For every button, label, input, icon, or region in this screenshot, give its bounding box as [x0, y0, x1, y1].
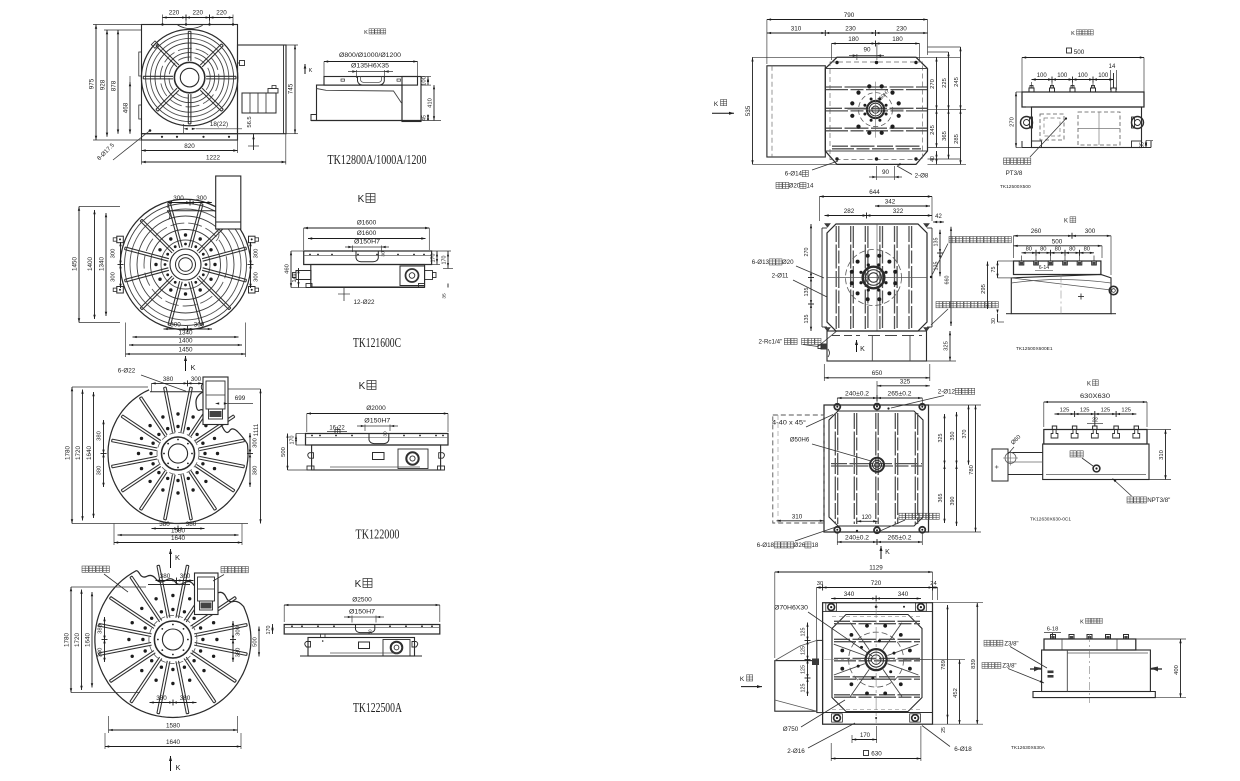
view TK12630X630A front: inner octagon table — [832, 615, 922, 712]
svg-text:40: 40 — [930, 156, 936, 162]
dimension 310/230/230 view5 — [767, 32, 928, 34]
label worm gearbox oil holes lower — [936, 302, 942, 308]
svg-text:K: K — [1087, 382, 1091, 388]
view TK121600C front: hub — [170, 249, 201, 280]
svg-text:6-Ø14: 6-Ø14 — [785, 171, 803, 178]
svg-text:125: 125 — [801, 646, 807, 655]
view TK12500X600 side: right boss circle — [1109, 286, 1117, 294]
svg-text:265±0.2: 265±0.2 — [888, 391, 913, 398]
svg-text:4-40 x 45°: 4-40 x 45° — [772, 420, 807, 427]
svg-text:6-Ø18: 6-Ø18 — [757, 542, 775, 549]
view TK122500A front: bolt dots rings — [201, 638, 204, 641]
view TK12630X630 side: body — [1043, 444, 1149, 480]
dimension 220/220/220 top — [162, 15, 164, 25]
view TK12800A front: bottom flange strip — [142, 134, 238, 140]
svg-text:90: 90 — [863, 47, 871, 54]
label hanging die view7side — [1070, 451, 1076, 457]
svg-text:1720: 1720 — [74, 633, 81, 648]
svg-text:18: 18 — [811, 542, 818, 549]
dimension 1640 left view4 — [91, 592, 93, 688]
svg-text:265±0.2: 265±0.2 — [888, 535, 913, 542]
svg-text:630: 630 — [871, 751, 882, 758]
svg-text:125: 125 — [801, 665, 807, 674]
svg-text:630X630: 630X630 — [1080, 393, 1111, 400]
svg-text:380: 380 — [156, 695, 167, 702]
view TK122500A side: center recess cup — [356, 625, 375, 633]
svg-text:230: 230 — [896, 26, 907, 33]
svg-text:380: 380 — [180, 695, 191, 702]
svg-text:Ø150H7: Ø150H7 — [354, 240, 381, 246]
svg-text:6-18: 6-18 — [1047, 627, 1059, 633]
svg-text:365: 365 — [938, 494, 944, 503]
svg-text:380: 380 — [163, 376, 174, 383]
dimension 300/300 inner-left view2 — [120, 242, 122, 288]
dimension 1222 bottom view1 — [142, 161, 286, 163]
label lock port PT3/8 — [1004, 158, 1010, 164]
svg-text:310: 310 — [792, 513, 803, 520]
dimension 365/390 lower right view7 — [944, 465, 946, 523]
svg-text:K: K — [175, 763, 180, 772]
dimension 170 right2 view2side — [447, 251, 449, 269]
svg-text:240±0.2: 240±0.2 — [845, 391, 870, 398]
view TK12800A front: motor unit — [242, 93, 276, 113]
svg-text:322: 322 — [893, 208, 904, 215]
dimension 245 right view5 — [960, 47, 962, 110]
dimension 300/380 inner-right view3 — [249, 433, 251, 487]
svg-text:K: K — [1064, 219, 1068, 225]
dimension 340/340 view8 — [831, 598, 921, 600]
view TK12630X630A side: side pins — [1034, 667, 1042, 672]
dimension 342 view6 — [875, 205, 930, 207]
dimension 100x4 view5side — [1032, 79, 1114, 81]
svg-text:170: 170 — [442, 256, 448, 265]
svg-text:6-14: 6-14 — [1039, 265, 1049, 271]
view TK12630X630A side: body — [1042, 650, 1151, 692]
dimension 310 right view7side — [1165, 430, 1167, 480]
view TK121600C front: 12 radial slots — [202, 270, 246, 282]
view TK12500X500 side: left round boss — [1021, 117, 1033, 129]
svg-text:TK122000: TK122000 — [356, 527, 400, 542]
view TK122000 side: feet — [307, 466, 314, 470]
svg-text:380: 380 — [159, 521, 170, 528]
view direction K marker right of view1 — [304, 64, 306, 74]
svg-text:125: 125 — [801, 684, 807, 693]
view TK121600C front: bolt circle dots — [213, 263, 216, 266]
view TK122500A front: top chord line — [148, 584, 190, 586]
svg-text:125: 125 — [1121, 408, 1131, 414]
svg-text:125: 125 — [801, 628, 807, 637]
svg-text:310: 310 — [791, 26, 802, 33]
view TK12630X630A side: clamp fittings left — [1048, 671, 1054, 674]
label worm gearbox oil holes upper — [949, 237, 955, 243]
view TK12800A front: corner clamp tab — [151, 41, 158, 48]
view TK12500X500 front: main body octagon — [825, 57, 927, 164]
view TK12630X630A side: top plate — [1044, 639, 1136, 650]
dimension 789 right view8 — [947, 605, 949, 719]
view direction K arrow between view3 and view4 — [170, 549, 172, 568]
svg-text:K: K — [175, 553, 180, 562]
view TK12630X630 front: vertical T-slot bands — [834, 413, 836, 524]
svg-text:270: 270 — [930, 79, 936, 89]
dimension 1400 bottom view2 — [129, 344, 242, 346]
svg-text:220: 220 — [216, 10, 227, 17]
view TK12630X630A side: studs — [1051, 635, 1056, 640]
dimension 1450 left view2 — [78, 207, 80, 323]
dimension 1340 bottom view2 — [133, 336, 239, 338]
dimension 975 left — [93, 24, 142, 26]
view TK12800A side: main body with wedge — [317, 85, 403, 120]
svg-text:270: 270 — [804, 248, 810, 257]
svg-text:285: 285 — [954, 134, 960, 144]
svg-text:342: 342 — [885, 199, 896, 206]
svg-text:745: 745 — [288, 83, 295, 94]
svg-text:180: 180 — [892, 36, 903, 43]
dimension 1400 left view2 — [94, 210, 96, 319]
dimension 325/350/370 right view7 — [944, 414, 946, 465]
view TK12500X600 front: clamp fitting left — [821, 344, 828, 350]
view TK12630X630 front: outer square — [824, 405, 929, 532]
svg-text:1640: 1640 — [166, 739, 181, 746]
dimension 1780 left view3 — [71, 387, 73, 524]
dimension 380/380 inner-left view3 — [103, 420, 105, 487]
svg-text:120: 120 — [861, 515, 872, 521]
svg-text:1129: 1129 — [869, 565, 883, 572]
svg-text:300: 300 — [180, 573, 191, 580]
svg-text:45: 45 — [422, 115, 428, 121]
view direction K arrow view7 — [880, 546, 882, 559]
svg-text:245: 245 — [954, 77, 960, 87]
view TK121600C side: left shaft boss — [296, 271, 311, 280]
svg-text:380: 380 — [186, 521, 197, 528]
svg-text:699: 699 — [235, 395, 246, 402]
svg-text:80: 80 — [1069, 247, 1075, 253]
dimension 380/380 bottom view4 — [150, 702, 197, 704]
dimension 245 lower right view5 — [936, 110, 938, 148]
svg-text:500: 500 — [253, 637, 259, 647]
dimension 149 left view2side — [298, 268, 300, 288]
svg-text:660: 660 — [945, 276, 951, 285]
svg-text:1640: 1640 — [85, 633, 92, 648]
dimension 325 bottom right view6 — [949, 331, 951, 361]
view TK122000 side: center handle — [373, 453, 385, 460]
svg-text:282: 282 — [844, 208, 855, 215]
svg-text:300: 300 — [254, 249, 260, 259]
svg-text:K: K — [1071, 31, 1075, 37]
dimension 380/380 bottom view3 — [152, 528, 205, 530]
svg-text:1580: 1580 — [166, 723, 181, 730]
dimension 1580 bottom view4 — [109, 729, 238, 731]
svg-text:6-Ø18: 6-Ø18 — [954, 746, 972, 753]
svg-text:300: 300 — [236, 626, 242, 636]
svg-text:135: 135 — [804, 315, 810, 324]
view TK12500X600 side: top plate with studs — [1014, 261, 1101, 275]
svg-text:380: 380 — [98, 648, 104, 658]
view TK121600C side: feet — [306, 284, 312, 288]
view TK122500A front: 16 radial slots — [194, 645, 247, 655]
view TK12630X630A front: left box — [775, 661, 817, 712]
svg-text:K: K — [860, 346, 865, 353]
view TK122000 side: motor circle — [406, 452, 418, 464]
dimension 240/265 top view7 — [837, 397, 922, 399]
view TK12500X600 front: corner clamp tabs — [824, 223, 831, 227]
view TK122000 front: motor box — [203, 377, 228, 425]
svg-text:300: 300 — [111, 249, 117, 259]
view TK12500X500 front: corner bolt dots — [835, 61, 838, 64]
svg-text:Ø750: Ø750 — [783, 726, 799, 733]
svg-text:K: K — [355, 579, 362, 590]
dimension 1640 left view3 — [93, 392, 95, 518]
svg-text:225: 225 — [942, 78, 948, 88]
view TK12500X500 side: top plate — [1022, 92, 1144, 107]
svg-text:1780: 1780 — [64, 633, 71, 648]
dimension 468 left — [129, 82, 131, 134]
leader clamp port to body view8side — [1010, 647, 1047, 669]
svg-text:35: 35 — [1140, 142, 1146, 148]
svg-text:325: 325 — [900, 379, 911, 386]
svg-text:Ø150H7: Ø150H7 — [349, 610, 376, 616]
dimension 90 view5 top — [856, 54, 858, 60]
view TK12500X500 side: body block — [1032, 107, 1142, 148]
view TK12630X630 side: crosshair circle — [1005, 453, 1016, 464]
dimension 878 left — [117, 30, 119, 134]
label worm oil port view7 — [899, 513, 905, 519]
view direction K arrow bottom view2 — [185, 356, 187, 371]
svg-text:135: 135 — [934, 238, 940, 247]
dimension 1780 left view4 — [70, 587, 72, 693]
dimension 410 right side view1 — [421, 120, 441, 122]
svg-text:170: 170 — [431, 254, 437, 263]
leader release port to body view8side — [1008, 669, 1044, 684]
view TK121600C front: outer rim circle — [120, 199, 250, 329]
svg-text:1450: 1450 — [178, 347, 193, 354]
svg-text:460: 460 — [285, 264, 291, 274]
view TK122500A front: hub circles — [154, 621, 191, 658]
view TK12800A side: table top plate — [324, 77, 418, 86]
view TK121600C side: center recess cup — [356, 251, 378, 262]
label drain NPT3/8 view7side — [1127, 497, 1133, 503]
svg-text:300: 300 — [191, 376, 202, 383]
view TK122500A front: disc outline with torn cut — [95, 571, 251, 718]
dimension 1640 bottom view3 — [114, 542, 242, 544]
dimension 225 right view5 — [948, 52, 950, 110]
dimension 35 right view2side — [447, 284, 449, 288]
view TK12500X600 front: side strips — [821, 228, 823, 327]
svg-text:TK121600C: TK121600C — [353, 335, 401, 350]
svg-text:Ø50H6: Ø50H6 — [790, 437, 810, 444]
view TK12630X630A side: base flange — [1033, 692, 1155, 698]
svg-text:100: 100 — [1037, 73, 1048, 79]
view TK12630X630A front: top rail bolts — [828, 604, 835, 611]
svg-text:790: 790 — [844, 12, 855, 19]
view TK12630X630 front: left dashed plate — [773, 415, 824, 523]
svg-text:1340: 1340 — [99, 257, 106, 272]
dimension 270 view5side — [1015, 92, 1017, 148]
dimension 180/180 view5 — [832, 43, 920, 45]
svg-text:1720: 1720 — [75, 446, 82, 461]
svg-text:14: 14 — [807, 183, 814, 190]
svg-text:300: 300 — [170, 322, 181, 329]
svg-text:6-Ø22: 6-Ø22 — [118, 368, 136, 375]
view TK121600C side: right gearbox — [400, 266, 425, 286]
view direction K arrow view6 — [856, 340, 858, 352]
svg-text:878: 878 — [111, 80, 118, 91]
dimension 380/300 top view3 — [152, 382, 203, 384]
view TK121600C front: concentric rings — [125, 204, 247, 326]
view TK12630X630 side: oil plug circle — [1093, 465, 1100, 472]
svg-text:220: 220 — [193, 10, 204, 17]
svg-text:K: K — [309, 68, 313, 74]
svg-text:380: 380 — [253, 466, 259, 476]
dimension 135/135/660 right view6 — [939, 230, 941, 276]
view TK121600C front: top chord cut — [167, 210, 216, 212]
view TK121600C front: top right housing rect — [216, 176, 241, 229]
dimension 780 right view7 — [975, 405, 977, 532]
svg-text:300: 300 — [173, 195, 184, 202]
view TK12500X500 front: left auxiliary block — [767, 66, 825, 157]
svg-text:30: 30 — [368, 629, 373, 635]
svg-text:500: 500 — [1074, 49, 1085, 56]
view TK12500X500 front: center bolt circle cluster — [897, 114, 901, 118]
svg-text:780: 780 — [969, 465, 975, 475]
svg-text:1780: 1780 — [65, 446, 72, 461]
svg-text:K: K — [358, 194, 365, 205]
view TK12500X500 front: inner dashed outline — [830, 62, 923, 160]
svg-text:100: 100 — [422, 76, 428, 86]
view TK122000 front: 16 radial slots — [199, 459, 244, 468]
dimension 40 view5 — [936, 151, 938, 164]
svg-text:380: 380 — [160, 573, 171, 580]
svg-text:42: 42 — [935, 214, 942, 220]
svg-text:2-Ø11: 2-Ø11 — [772, 273, 789, 280]
view TK12500X500 side: right round boss — [1132, 117, 1144, 129]
svg-text:+: + — [994, 465, 1001, 469]
view TK12500X600 side: plus mark — [1078, 296, 1084, 298]
label oil-pipe port view4 — [82, 566, 88, 572]
dimension 300/380 inner-right view4 — [232, 621, 234, 662]
view TK12630X630A front: bolt dots — [908, 667, 912, 671]
svg-text:400: 400 — [1174, 665, 1180, 675]
dimension 30 view6side — [997, 314, 999, 322]
view TK12630X630A front: bottom rail bolts — [834, 715, 841, 722]
dimension 35 view5side — [1145, 141, 1147, 148]
view TK12630X630A side: center dashed axis — [1089, 634, 1091, 703]
view TK122000 side: lifting hooks — [308, 453, 314, 459]
dimension 500 right view4 — [258, 627, 260, 657]
dimension 820 bottom view1 — [142, 150, 238, 152]
svg-text:NPT3/8": NPT3/8" — [1147, 497, 1170, 504]
label release port Z3/8 view8 — [982, 663, 988, 669]
svg-text:TK12630X630-0C1: TK12630X630-0C1 — [1030, 517, 1071, 523]
dimension 100 right side view1 — [418, 76, 432, 78]
extension line center view7 — [876, 389, 878, 402]
svg-text:Ø2000: Ø2000 — [366, 405, 386, 412]
dimension 535 left view5 — [752, 57, 754, 164]
svg-text:Ø2500: Ø2500 — [352, 597, 372, 604]
svg-text:75: 75 — [991, 267, 997, 273]
svg-text:365: 365 — [942, 131, 948, 141]
dimension 270/135/135 left view6 — [810, 224, 812, 331]
dimension 90 bottom view5 — [876, 166, 878, 180]
svg-text:1222: 1222 — [206, 155, 221, 162]
label clamp port Z3/8 view8 — [984, 640, 990, 646]
dimension 310 bottom view7 — [777, 520, 825, 522]
svg-text:1640: 1640 — [171, 535, 186, 542]
view TK12500X600 side: feet — [1006, 313, 1011, 315]
dimension 170 right view2side — [432, 250, 451, 252]
dimension 400 right view8side — [1180, 639, 1182, 698]
svg-text:300: 300 — [254, 272, 260, 282]
svg-text:30: 30 — [817, 581, 823, 587]
svg-text:80: 80 — [1026, 247, 1032, 253]
svg-text:K: K — [190, 363, 195, 372]
dimension 500 left view3side — [287, 434, 289, 471]
view TK122000 side: body block — [312, 445, 441, 470]
svg-text:K: K — [714, 101, 719, 108]
svg-text:100: 100 — [1098, 73, 1109, 79]
svg-text:220: 220 — [169, 10, 180, 17]
svg-text:1340: 1340 — [178, 330, 193, 337]
dimension 285 lower right view5 — [960, 110, 962, 165]
svg-text:90: 90 — [882, 169, 890, 176]
dimension 170 bottom view8 — [851, 735, 853, 743]
view TK122500A side: lifting hooks — [305, 642, 311, 648]
view TK12500X600 front: center flange circles — [846, 250, 902, 306]
svg-text:1400: 1400 — [87, 257, 94, 272]
svg-text:300: 300 — [196, 195, 207, 202]
svg-text:270: 270 — [1010, 117, 1016, 127]
svg-text:56.5: 56.5 — [247, 116, 253, 127]
dimension 380/300 top view4 — [156, 580, 194, 582]
view TK12800A side: left foot — [311, 115, 317, 121]
dimension 270 right view5 — [936, 57, 938, 109]
view TK12630X630 front: inner octagon — [829, 411, 923, 526]
svg-text:18(22): 18(22) — [210, 121, 228, 128]
svg-text:170: 170 — [860, 733, 871, 739]
svg-text:12-Ø22: 12-Ø22 — [353, 299, 375, 306]
view TK121600C front: clamp tabs — [117, 236, 124, 243]
dimension 790 top view5 — [767, 19, 928, 21]
svg-text:125: 125 — [1080, 408, 1090, 414]
svg-text:Ø1600: Ø1600 — [357, 220, 377, 227]
svg-text:125: 125 — [1060, 408, 1070, 414]
dimension 1340 left view2 — [105, 213, 107, 316]
dimension 630 square bottom view8 — [864, 751, 869, 756]
dimension 1111 right view3 — [260, 389, 262, 524]
svg-text:80: 80 — [1055, 247, 1061, 253]
view TK122000 side: top plate — [306, 434, 449, 446]
svg-text:340: 340 — [898, 591, 909, 598]
dimension 500 square view5side — [1067, 48, 1072, 53]
view TK12800A side: plate bolt marks — [341, 79, 345, 81]
dimension 300/300 top view2 — [168, 202, 212, 204]
svg-text:644: 644 — [869, 189, 880, 196]
svg-text:35: 35 — [442, 293, 448, 299]
dimension 928 left — [104, 29, 142, 31]
view TK122000 front: bolt dots rings — [203, 452, 206, 455]
svg-text:468: 468 — [123, 102, 130, 113]
view TK12630X630A front: left attachment plate — [817, 640, 823, 712]
view TK122000 front: hub circles — [162, 437, 195, 470]
view TK12800A front: small clamp right edge — [240, 61, 245, 66]
svg-text:TK12500X600E1: TK12500X600E1 — [1016, 346, 1053, 352]
view TK12630X630 front: center bore — [870, 458, 884, 472]
svg-text:80: 80 — [1040, 247, 1046, 253]
dimension 452 right view8 — [959, 660, 961, 725]
dimension 170 left view3side — [295, 434, 297, 446]
svg-text:80: 80 — [1084, 247, 1090, 253]
view TK12630X630A front: radial pattern lines — [887, 664, 918, 675]
dimension 125x4 view7side — [1055, 413, 1137, 415]
